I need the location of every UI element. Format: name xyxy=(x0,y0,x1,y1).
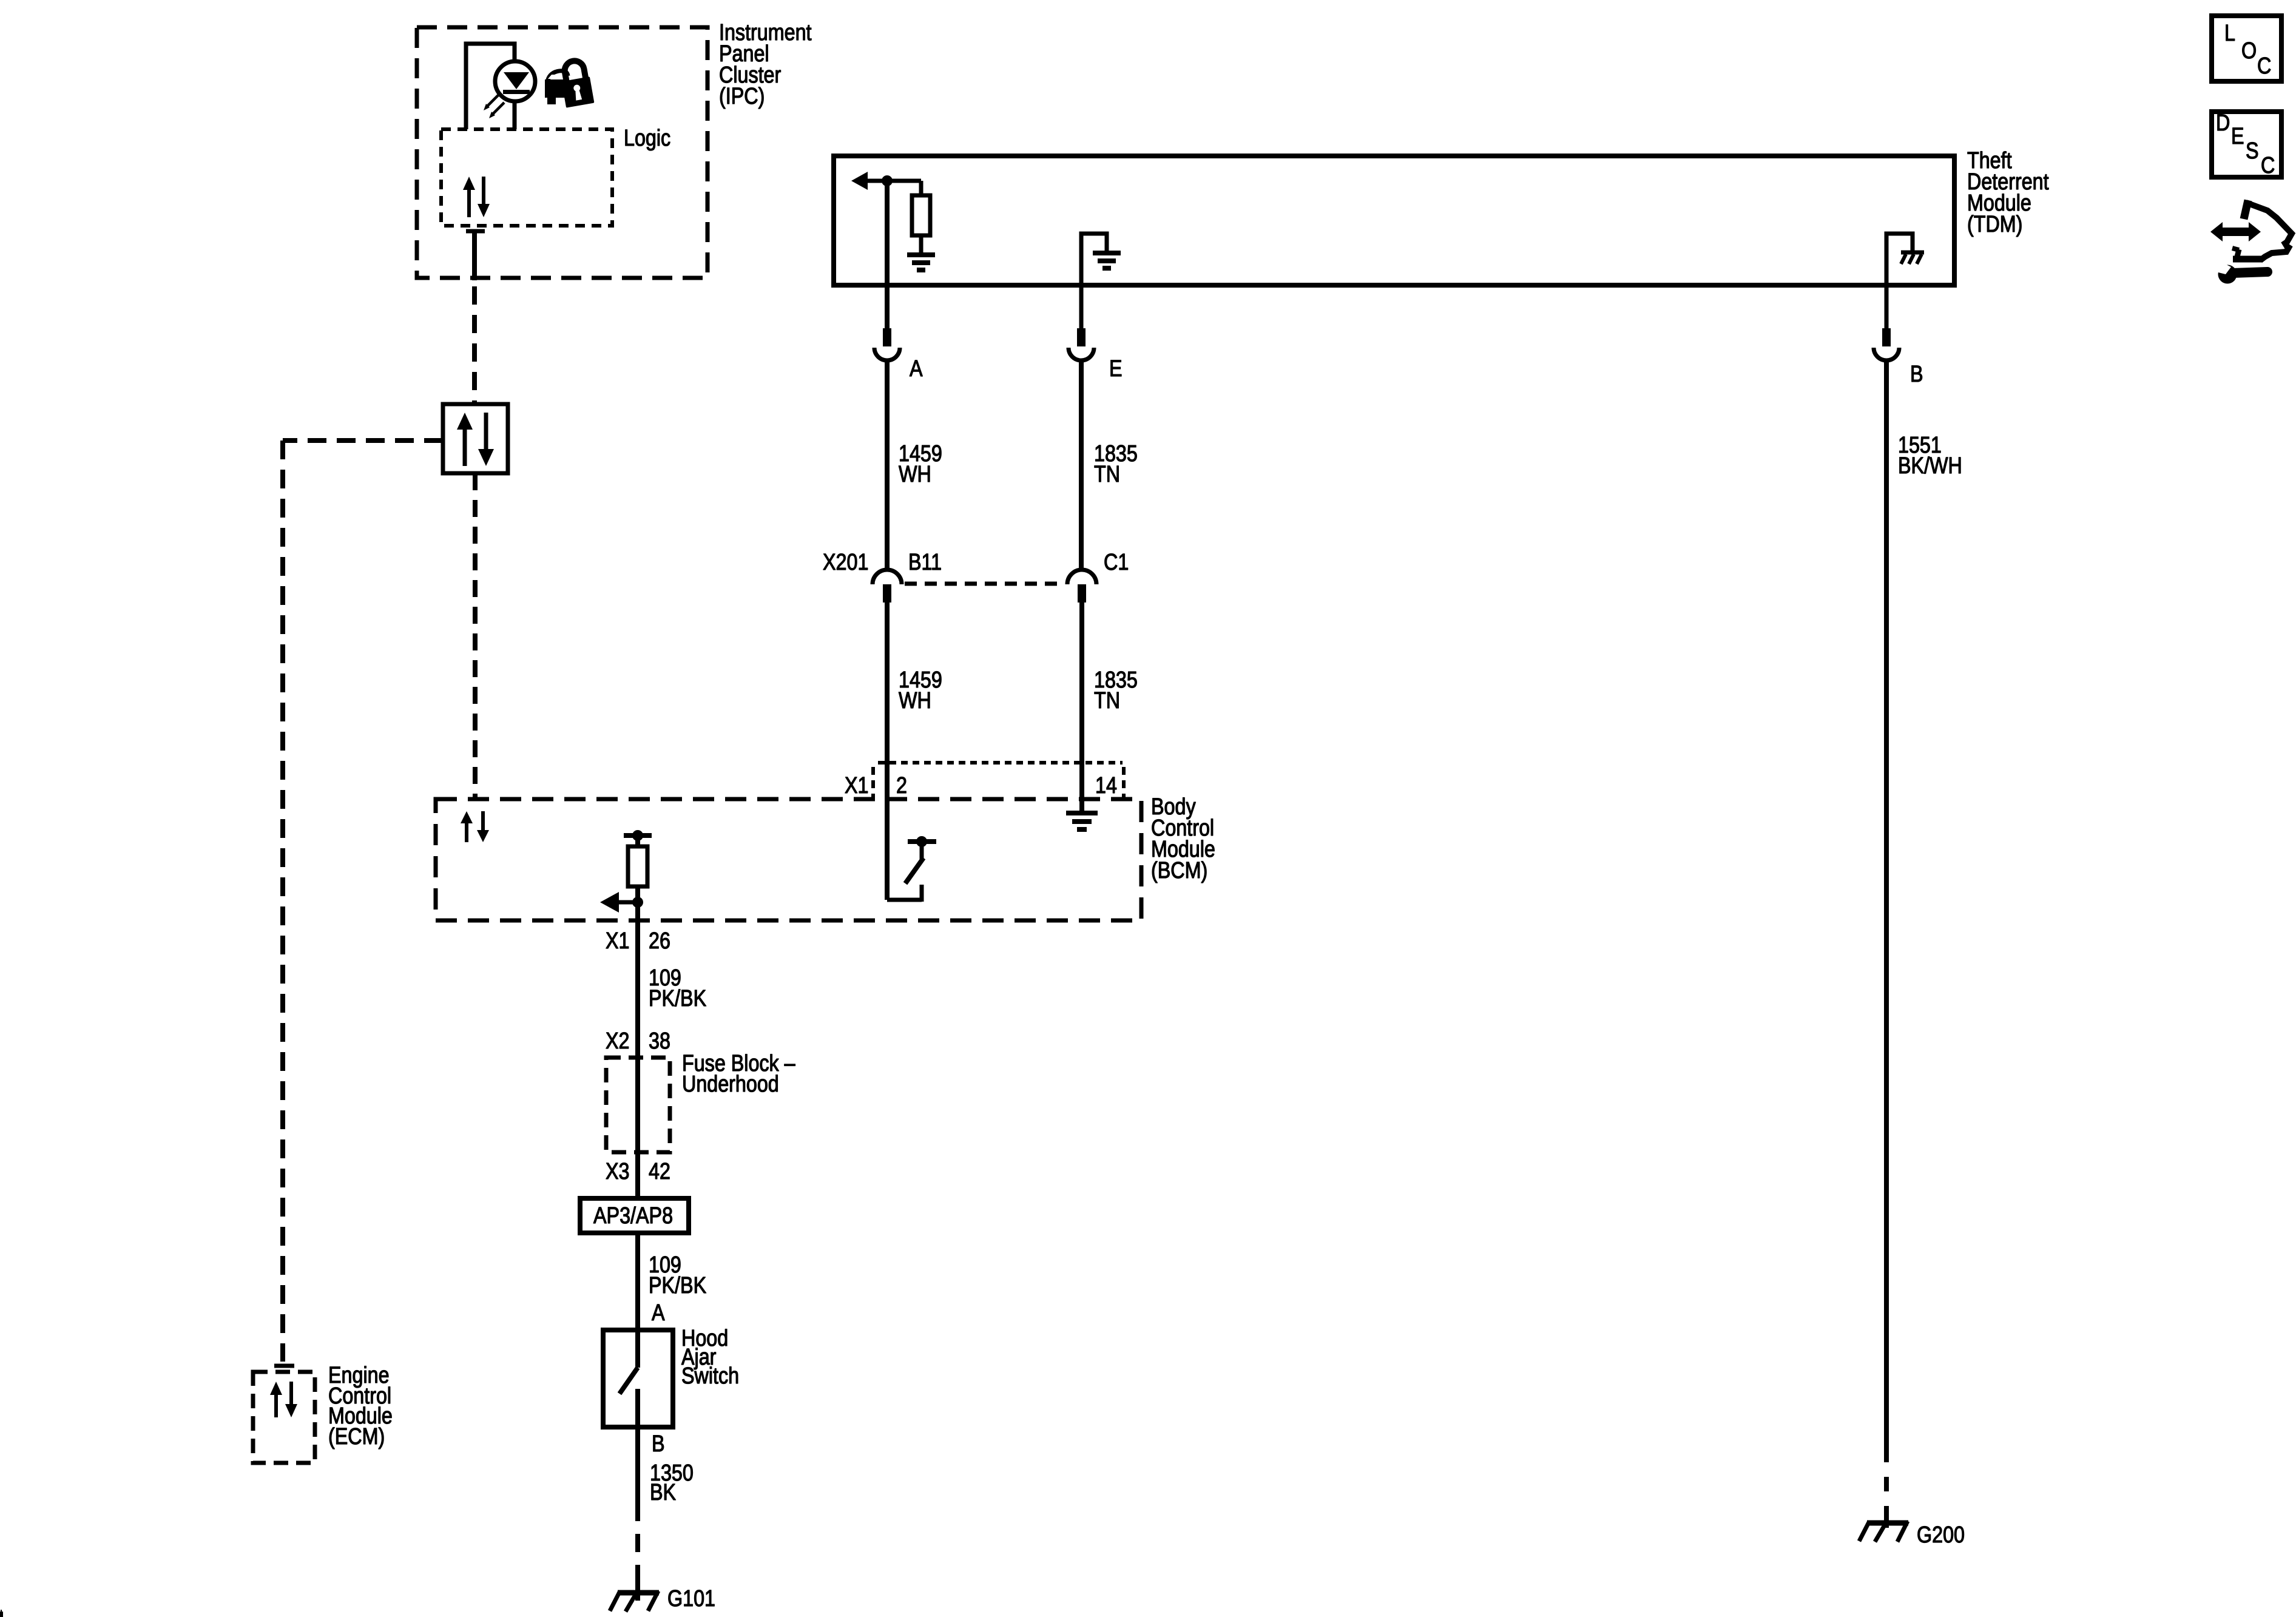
svg-text:TN: TN xyxy=(1094,688,1120,714)
svg-text:C1: C1 xyxy=(1104,550,1129,575)
svg-text:C: C xyxy=(2261,153,2275,178)
svg-text:E: E xyxy=(1109,356,1123,382)
svg-text:E: E xyxy=(2231,124,2244,149)
svg-text:(IPC): (IPC) xyxy=(719,84,765,109)
svg-text:2: 2 xyxy=(896,773,907,798)
svg-text:42: 42 xyxy=(649,1159,670,1184)
svg-text:D: D xyxy=(2216,110,2230,136)
svg-text:X1: X1 xyxy=(606,928,629,954)
svg-text:TN: TN xyxy=(1094,462,1120,487)
svg-text:Underhood: Underhood xyxy=(682,1072,779,1097)
svg-text:38: 38 xyxy=(649,1028,670,1054)
svg-text:A: A xyxy=(910,356,923,382)
svg-text:B: B xyxy=(1910,362,1923,387)
svg-text:BK: BK xyxy=(650,1480,677,1505)
svg-text:G200: G200 xyxy=(1917,1522,1965,1548)
svg-text:AP3/AP8: AP3/AP8 xyxy=(593,1203,673,1229)
svg-text:WH: WH xyxy=(899,462,931,487)
svg-text:A: A xyxy=(652,1300,665,1326)
svg-text:B11: B11 xyxy=(908,550,942,575)
svg-text:PK/BK: PK/BK xyxy=(649,986,707,1011)
svg-text:B: B xyxy=(652,1431,665,1457)
svg-text:X3: X3 xyxy=(606,1159,629,1184)
svg-text:WH: WH xyxy=(899,688,931,714)
svg-text:C: C xyxy=(2257,53,2271,79)
svg-text:26: 26 xyxy=(649,928,670,954)
svg-text:X1: X1 xyxy=(845,773,868,798)
svg-text:X201: X201 xyxy=(823,550,868,575)
svg-text:(TDM): (TDM) xyxy=(1967,212,2022,237)
svg-text:O: O xyxy=(2241,38,2257,64)
svg-text:Switch: Switch xyxy=(681,1363,739,1389)
svg-text:PK/BK: PK/BK xyxy=(649,1273,707,1298)
svg-text:S: S xyxy=(2246,138,2259,164)
svg-text:L: L xyxy=(2224,21,2235,46)
svg-text:Logic: Logic xyxy=(624,126,670,151)
svg-text:X2: X2 xyxy=(606,1028,629,1054)
svg-text:BK/WH: BK/WH xyxy=(1898,453,1962,479)
svg-text:(ECM): (ECM) xyxy=(328,1424,385,1450)
svg-text:14: 14 xyxy=(1095,773,1117,798)
svg-text:G101: G101 xyxy=(667,1586,715,1612)
svg-text:(BCM): (BCM) xyxy=(1151,858,1207,883)
